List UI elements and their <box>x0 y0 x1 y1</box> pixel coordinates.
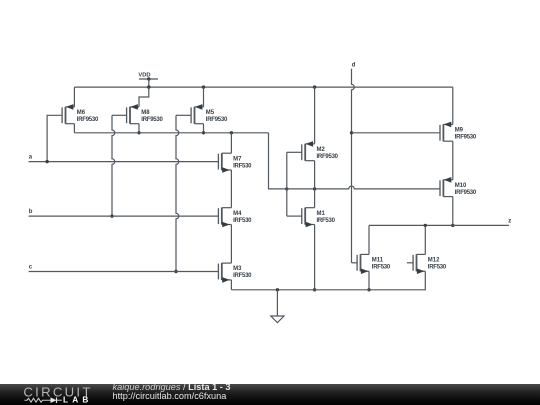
svg-text:M4: M4 <box>233 211 242 217</box>
wire M1 drain up to net1 <box>314 189 316 208</box>
wire M6 source to rail <box>73 87 75 107</box>
wire M8 gate down to node b (hops over net1 and wire a) <box>112 114 127 116</box>
wire M12 drain up to z wire <box>424 225 426 254</box>
transistor M8 (PMOS) <box>127 104 139 124</box>
svg-text:LAB: LAB <box>63 395 92 404</box>
junction M8 gate - wire b <box>110 214 113 217</box>
transistor M12 (NMOS) <box>413 254 425 274</box>
svg-text:IRF9530: IRF9530 <box>206 117 228 123</box>
svg-text:IRF9530: IRF9530 <box>317 154 339 160</box>
junction rail-M2 source <box>313 85 316 88</box>
svg-text:M6: M6 <box>77 110 86 116</box>
svg-text:z: z <box>508 219 511 225</box>
wire M7 source to M4 drain <box>230 170 232 208</box>
wire M1 gate to gate rail <box>287 215 302 217</box>
wire M6 drain to net1 <box>73 124 75 133</box>
label M5 IRF9530 <box>206 110 228 123</box>
wire node d vertical (hops over VDD rail) <box>352 69 355 263</box>
wire b <box>29 215 219 217</box>
junction M8 drain - net1 <box>137 131 140 134</box>
wire M5 source to rail <box>203 87 205 107</box>
svg-text:M8: M8 <box>141 110 150 116</box>
wire VDD stem <box>148 79 150 87</box>
transistor M1 (NMOS) <box>302 208 315 228</box>
transistor M9 (PMOS) <box>440 122 453 142</box>
wire M6 gate to node a <box>47 115 62 161</box>
wire M5 drain to net1 <box>203 124 205 133</box>
junction M5 drain - net1 <box>202 131 205 134</box>
svg-text:IRF530: IRF530 <box>233 218 252 224</box>
wire M7 drain up to net1 <box>230 133 232 153</box>
junction d - M9 gate wire <box>350 131 353 134</box>
label M4 IRF530 <box>233 211 252 224</box>
label M12 IRF530 <box>428 258 447 271</box>
svg-text:M9: M9 <box>455 128 464 134</box>
wire z <box>369 224 509 226</box>
svg-text:M10: M10 <box>455 183 467 189</box>
wire net1 y=189 to M10 gate (hops over node d wire) <box>287 186 440 189</box>
svg-text:d: d <box>352 62 356 68</box>
junction M1 source - ground rail <box>313 288 316 291</box>
transistor M2 (PMOS) <box>302 141 315 161</box>
junction net1 - M2/M1 gate rail <box>285 187 288 190</box>
wire M9 gate <box>352 132 441 134</box>
junction ground rail - ground symbol <box>276 288 279 291</box>
CircuitLab logo <box>0 384 100 405</box>
label M3 IRF530 <box>233 266 252 279</box>
wire z left end down to M11 drain <box>368 225 370 254</box>
wire M2 gate to gate rail <box>287 151 302 153</box>
label M1 IRF530 <box>317 211 336 224</box>
label M9 IRF9530 <box>455 128 477 141</box>
wire ground rail y=290 and up to M12 source <box>231 271 425 290</box>
svg-text:c: c <box>29 265 33 271</box>
junction net1 - M7 drain <box>230 131 233 134</box>
svg-text:IRF530: IRF530 <box>317 218 336 224</box>
svg-text:M5: M5 <box>206 110 215 116</box>
label M2 IRF9530 <box>317 147 339 160</box>
wire net1 step down to y=189 <box>269 133 287 189</box>
label M10 IRF9530 <box>455 183 477 196</box>
footer title text <box>113 383 231 402</box>
junction M11 source - ground rail <box>367 288 370 291</box>
wire a <box>29 161 219 163</box>
svg-text:IRF9530: IRF9530 <box>77 117 99 123</box>
wire M4 source to M3 drain <box>230 225 232 264</box>
wire M12 gate stub (unconnected) <box>407 262 413 264</box>
wire VDD rail y=87 <box>74 86 452 88</box>
svg-text:IRF530: IRF530 <box>233 163 252 169</box>
wire M8 drain to net1 <box>138 124 140 133</box>
junction M5 gate - wire c <box>174 270 177 273</box>
transistor M5 (PMOS) <box>191 104 203 124</box>
wire M2/M1 gate rail <box>286 152 288 216</box>
svg-text:IRF9530: IRF9530 <box>141 117 163 123</box>
junction wire a - M6 gate <box>45 160 48 163</box>
svg-text:M2: M2 <box>317 147 326 153</box>
transistor M6 (PMOS) <box>62 104 74 124</box>
label M11 IRF530 <box>372 258 391 271</box>
junction rail-M5 source <box>202 85 205 88</box>
wire M8 source dogleg to rail <box>139 87 149 107</box>
wire M9 drain to M10 source <box>452 141 454 180</box>
svg-text:IRF530: IRF530 <box>233 273 252 279</box>
footer bar <box>0 384 540 405</box>
transistor M7 (NMOS) <box>218 153 231 173</box>
wire M1 source down to ground rail <box>314 225 316 290</box>
svg-text:M11: M11 <box>372 258 384 264</box>
wire M10 drain down to z wire <box>452 197 454 226</box>
label M8 IRF9530 <box>141 110 163 123</box>
svg-text:IRF530: IRF530 <box>372 265 391 271</box>
wire M2 drain down to net1 <box>314 161 316 189</box>
transistor M3 (NMOS) <box>218 263 231 283</box>
wire net1 horizontal y=133 <box>74 132 268 134</box>
svg-text:b: b <box>29 209 33 215</box>
VDD power symbol <box>138 73 158 79</box>
junction VDD-rail <box>147 85 150 88</box>
junction M10 drain - z wire <box>451 224 454 227</box>
svg-text:IRF9530: IRF9530 <box>455 135 477 141</box>
svg-text:M1: M1 <box>317 211 326 217</box>
svg-text:IRF9530: IRF9530 <box>455 190 477 196</box>
transistor M11 (NMOS) <box>357 254 369 274</box>
wire M5 gate down to node c (hops over net1, a, b) <box>176 114 191 116</box>
wire M9 source up to rail <box>452 87 454 124</box>
svg-text:a: a <box>29 155 33 161</box>
svg-text:M3: M3 <box>233 266 242 272</box>
svg-text:IRF530: IRF530 <box>428 265 447 271</box>
transistor M4 (NMOS) <box>218 208 231 228</box>
ground symbol <box>271 290 284 323</box>
transistor M10 (PMOS) <box>440 177 453 197</box>
svg-text:M12: M12 <box>428 258 440 264</box>
wire M11 source down to ground rail <box>368 271 370 290</box>
resistor + diode glyph <box>25 398 51 402</box>
junction net1 - M2 drain/M1 drain <box>313 187 316 190</box>
label M7 IRF530 <box>233 156 252 169</box>
junction z - M12 drain <box>424 224 427 227</box>
wire c <box>29 271 219 273</box>
wire M3 source down to ground rail <box>230 280 232 290</box>
junction VDD bar <box>147 77 150 80</box>
svg-text:M7: M7 <box>233 156 242 162</box>
wire d to M11 gate <box>352 262 358 264</box>
label M6 IRF9530 <box>77 110 99 123</box>
junction rail-M8 source <box>147 86 150 89</box>
wire M2 source up to rail <box>314 87 316 144</box>
